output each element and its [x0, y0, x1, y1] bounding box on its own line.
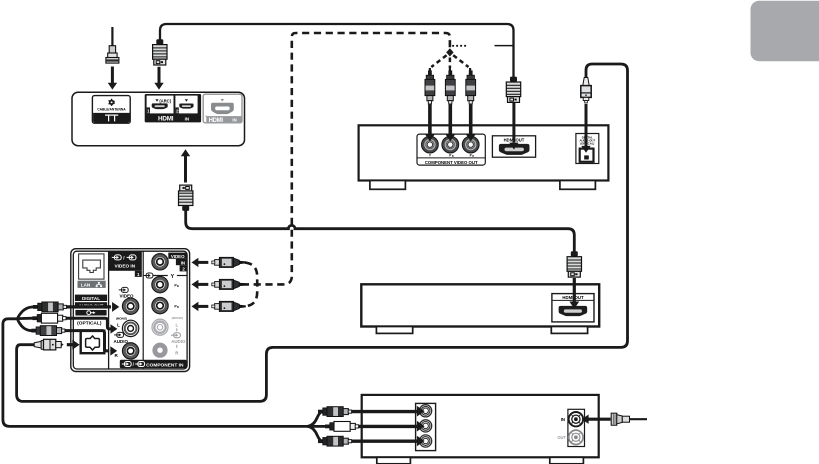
dashed component video cable (cable box to TV COMPONENT IN) [242, 33, 450, 306]
HDMI plug pointing up (to TV HDMI IN 2) [179, 185, 193, 211]
HDMI plug into blu-ray HDMI OUT [567, 251, 581, 277]
coax IN/OUT plate [568, 409, 585, 446]
headphone icon bar [75, 310, 106, 316]
svg-text:IN: IN [181, 260, 185, 265]
svg-text:B: B [177, 284, 179, 288]
svg-text:B: B [452, 155, 454, 158]
DIGITAL label bar [75, 295, 107, 301]
bottom device (audio system) [362, 395, 599, 457]
bottom jack 3 [420, 435, 432, 447]
VIDEO IN 1 header [109, 251, 142, 277]
component plug Pr (pointing down) [466, 68, 476, 104]
antenna cable wire [111, 27, 113, 47]
bottom plug 3 [318, 436, 352, 446]
optical plug (into TV optical port) [34, 339, 63, 350]
arrow into blu-ray HDMI OUT [569, 278, 579, 309]
dotted continuation marks [452, 45, 466, 47]
arrow into jack Pr [465, 105, 476, 142]
svg-text:IN: IN [232, 118, 236, 123]
svg-text:(MONO): (MONO) [172, 316, 183, 320]
Pb jack (col2) [152, 276, 179, 292]
L jack (col1) [122, 320, 138, 336]
arrow into TV HDMI IN 1 [154, 67, 163, 90]
coax cable stub [630, 418, 647, 420]
arrow up into TV (from blu-ray HDMI cable) [181, 149, 190, 182]
component plug into Pr (pointing left) [212, 301, 246, 311]
LAN port [79, 254, 104, 279]
component plug Y (pointing down) [425, 68, 435, 104]
svg-text:DIGITAL: DIGITAL [82, 296, 100, 301]
bottom cable branch to three plugs [308, 412, 329, 442]
cable box right foot [560, 181, 596, 190]
greyed L jack (col2) [152, 319, 168, 335]
bottom plug 2 [325, 422, 359, 432]
LAN label bar [78, 281, 106, 288]
bottom device right foot [550, 457, 584, 464]
bottom device left foot [377, 457, 411, 464]
svg-text:HDMI: HDMI [209, 118, 224, 124]
svg-text:L: L [175, 323, 178, 328]
svg-text:(MONO): (MONO) [116, 316, 127, 320]
arrow into jack Pb [445, 105, 456, 142]
arrow into TV optical port [67, 340, 80, 350]
svg-text:HDMI: HDMI [158, 116, 174, 123]
page corner tab (grey) [751, 1, 819, 61]
white hop mask over dashed line [288, 225, 295, 229]
CABLE/ANTENNA jack box [92, 96, 130, 124]
component plug Pb (pointing down) [445, 68, 455, 104]
VIDEO jack (col1) [122, 298, 138, 314]
coax OUT jack (greyed) [569, 430, 583, 444]
svg-text:IN: IN [185, 116, 190, 121]
svg-text:Y: Y [171, 274, 175, 280]
jack Pr [462, 136, 479, 158]
jack Y [422, 136, 439, 157]
arrows into TV component jacks (from dashed cable plugs) [192, 258, 209, 311]
optical audio cable (TV optical out route) [17, 64, 628, 401]
svg-text:IN: IN [561, 417, 565, 422]
TV optical port [81, 331, 105, 354]
audio L plug (white) [32, 313, 66, 323]
HDMI OUT port (cable box) [492, 136, 535, 157]
coax IN jack [569, 412, 583, 426]
arrow into cable box HDMI OUT [509, 103, 518, 150]
coax antenna plug (pointing left) [611, 413, 629, 425]
junction tick on hdmi cable 1 [495, 45, 514, 47]
svg-text:COMPONENT VIDEO OUT: COMPONENT VIDEO OUT [425, 160, 478, 165]
svg-text:AUDIO: AUDIO [171, 339, 186, 344]
cable box left foot [370, 181, 406, 190]
svg-text:AUDIO: AUDIO [114, 339, 129, 344]
blu-ray right foot [551, 327, 587, 334]
blu-ray player (middle right device) [361, 284, 599, 326]
(MONO) L labels (col1) [116, 316, 127, 327]
bottom jack 2 [420, 420, 432, 432]
arrow into L jack [66, 318, 117, 333]
greyed R jack (col2) [152, 343, 167, 358]
TV rear panel [72, 92, 245, 145]
HDMI IN group (black) [145, 94, 201, 123]
component plug into Pb (pointing left) [212, 279, 246, 289]
TV side panel (middle left) [71, 249, 190, 372]
bottom device jack plate [416, 403, 436, 450]
svg-text:(OPTICAL): (OPTICAL) [77, 321, 102, 327]
svg-text:R: R [472, 155, 474, 158]
svg-text:R: R [177, 305, 179, 309]
VIDEO label + icon (col1) [119, 287, 134, 298]
audio R plug (grey) [31, 326, 65, 336]
video plug (dark) [33, 302, 67, 312]
COMPONENT IN bar [120, 360, 187, 369]
svg-text:CABLE/ANTENNA: CABLE/ANTENNA [97, 107, 126, 111]
HDMI cable 2 (blu-ray to TV HDMI IN 2) with hop [186, 210, 575, 253]
Pr jack (col2) [152, 297, 179, 313]
svg-text:LAN: LAN [81, 283, 91, 288]
arrow into cable box optical port [581, 104, 590, 153]
component plug into VIDEO IN 2/Y (pointing left) [212, 257, 246, 267]
HDMI IN 4 port (greyed) [203, 94, 242, 124]
R jack (col1) [122, 343, 138, 359]
DIGITAL AUDIO OUT (OPTICAL) port (cable box) [576, 134, 599, 164]
arrow into bottom jack 1 [352, 406, 425, 417]
AUDIO label + icon (col1) [114, 332, 129, 357]
arrow into bottom jack 3 [352, 436, 425, 447]
Y/VIDEO2 jack (col2) [152, 254, 168, 270]
antenna coax connector [106, 46, 119, 63]
COMPONENT VIDEO OUT group [417, 134, 485, 165]
blu-ray HDMI OUT port [552, 294, 594, 322]
svg-text:(ARC): (ARC) [159, 98, 171, 103]
HDMI plug into TV HDMI IN 1 [153, 39, 167, 65]
HDMI plug into cable box HDMI OUT [506, 77, 520, 103]
dashed cable fan-out node (diamond) [446, 48, 453, 56]
svg-text:VIDEO IN: VIDEO IN [115, 264, 136, 269]
composite/audio cable wires to TV video in 1 [3, 307, 308, 427]
dashed fan rays to three plugs [431, 55, 468, 68]
optical connector (into cable box optical out) [581, 78, 591, 104]
arrow into bottom jack 2 [359, 421, 425, 432]
arrow into CABLE/ANTENNA jack [108, 67, 117, 90]
Y line label (col2) [144, 273, 187, 280]
svg-text:OUT: OUT [557, 435, 566, 440]
VIDEO IN 2 header (col2) [168, 253, 187, 272]
AUDIO OUT label bar [75, 302, 107, 308]
blu-ray left foot [376, 327, 412, 334]
svg-text:COMPONENT IN: COMPONENT IN [146, 363, 184, 369]
cable box (top right device) [359, 125, 609, 180]
arrow into coax IN jack [582, 415, 611, 424]
HDMI cable 1 (cable box to TV HDMI IN 1) [160, 24, 514, 78]
svg-text:L: L [117, 323, 120, 328]
arrow into VIDEO jack [67, 302, 120, 312]
bottom jack 1 [420, 405, 432, 417]
svg-text:VIDEO: VIDEO [171, 254, 185, 259]
arrow into R jack [65, 331, 117, 356]
arrow into jack Y [425, 105, 436, 142]
greyed audio labels (col2) [171, 316, 186, 355]
jack Pb [442, 136, 459, 158]
bottom plug 1 [318, 407, 352, 417]
